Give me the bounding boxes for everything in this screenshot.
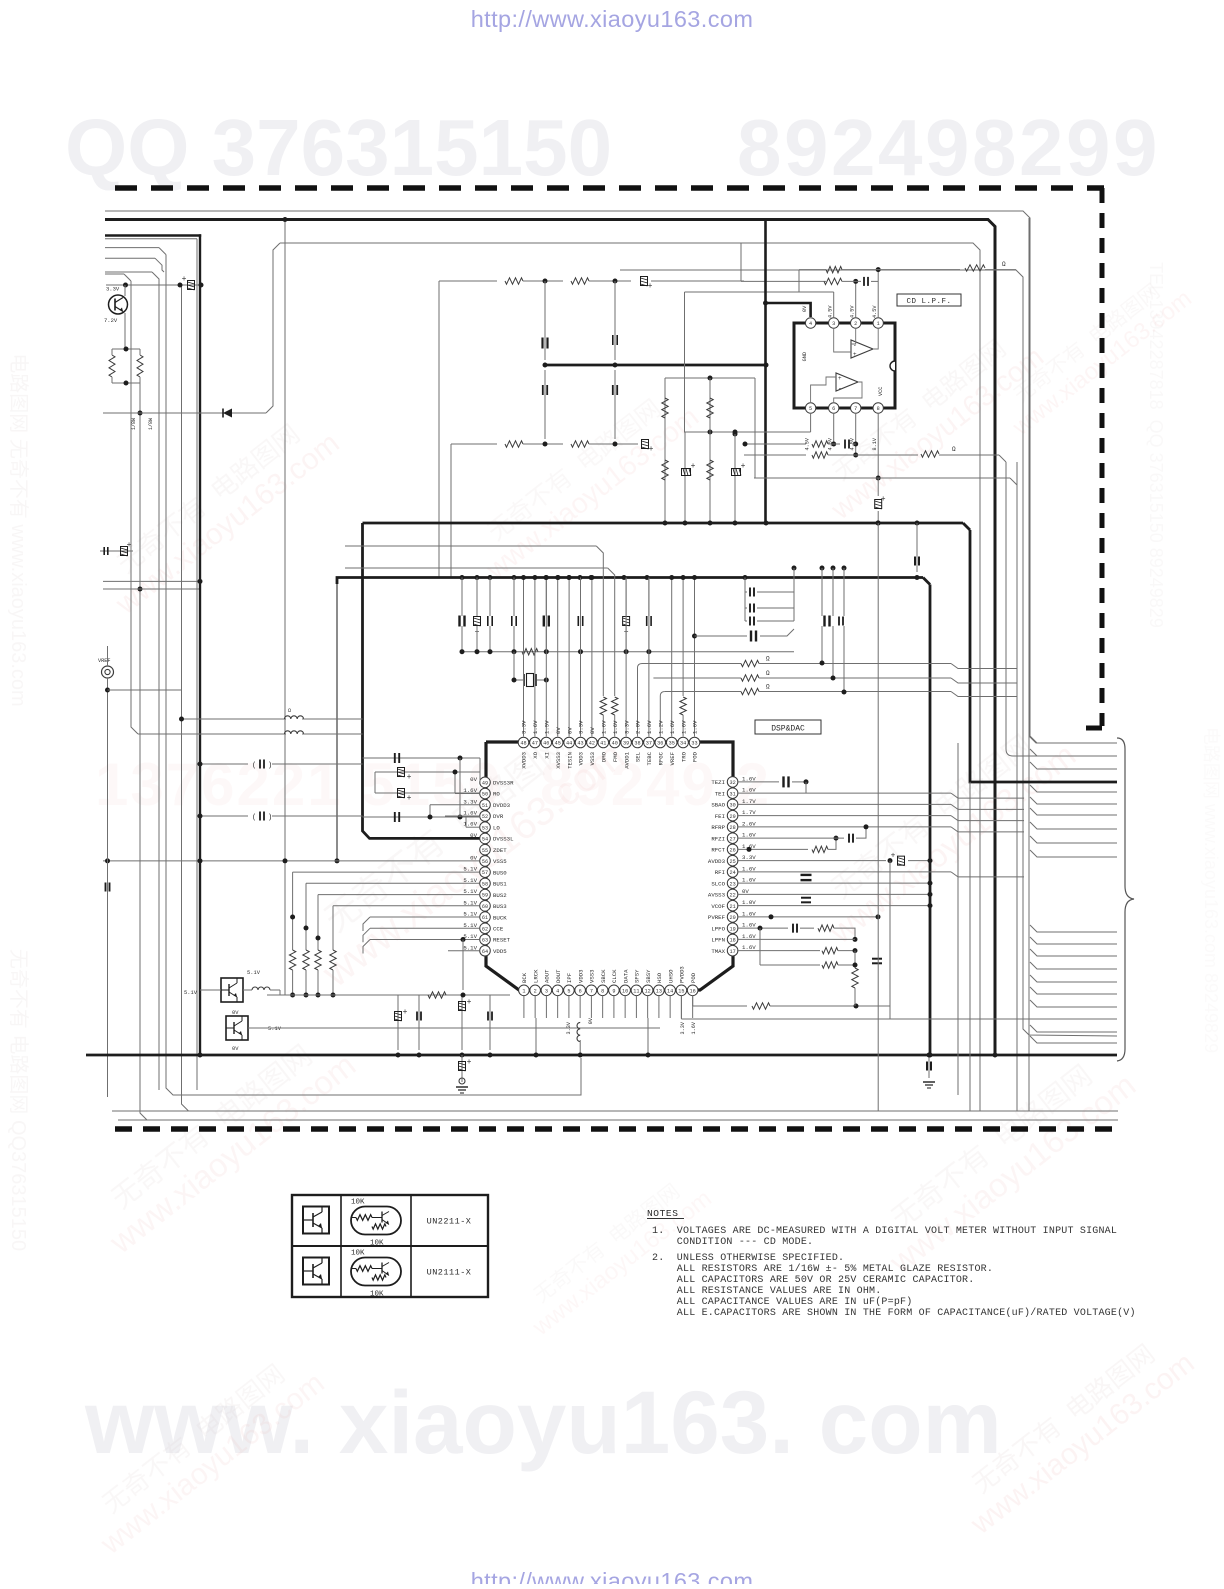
svg-text:FOD: FOD <box>692 751 699 762</box>
svg-text:1/8W: 1/8W <box>148 418 154 430</box>
svg-text:10K: 10K <box>351 1199 365 1207</box>
svg-text:1.0V: 1.0V <box>742 899 756 906</box>
svg-text:): ) <box>268 762 272 770</box>
svg-text:CONDITION --- CD MODE.: CONDITION --- CD MODE. <box>652 1237 813 1248</box>
svg-text:+: + <box>648 282 653 291</box>
svg-text:ZDET: ZDET <box>493 847 507 854</box>
svg-text:25: 25 <box>729 859 735 865</box>
svg-text:5.1V: 5.1V <box>463 933 477 940</box>
svg-text:TESIN: TESIN <box>566 752 573 769</box>
svg-text:1.6V: 1.6V <box>463 809 477 816</box>
svg-text:+: + <box>891 852 896 861</box>
svg-text:DMO: DMO <box>601 751 608 762</box>
svg-text:DVSS3R: DVSS3R <box>493 780 514 787</box>
svg-text:电路图网 www.xiaoyu163.com 8924982: 电路图网 www.xiaoyu163.com 89249829 <box>1201 727 1221 1053</box>
svg-text:RFZI: RFZI <box>711 835 725 842</box>
svg-text:12: 12 <box>645 988 651 994</box>
svg-text:21: 21 <box>729 904 735 910</box>
svg-text:2. UNLESS OTHERWISE SPECIFIED: 2. UNLESS OTHERWISE SPECIFIED. <box>652 1253 844 1264</box>
svg-text:1.6V: 1.6V <box>742 877 756 884</box>
svg-text:(: ( <box>252 814 256 822</box>
svg-text:1.6V: 1.6V <box>742 865 756 872</box>
svg-text:TEI: TEI <box>715 790 725 797</box>
svg-text:SBAO: SBAO <box>711 802 725 809</box>
svg-text:RFRP: RFRP <box>711 824 725 831</box>
svg-text:4.5V: 4.5V <box>828 305 834 318</box>
svg-text:VSS3: VSS3 <box>589 752 596 765</box>
svg-text:39: 39 <box>623 741 629 747</box>
svg-text:28: 28 <box>729 825 735 831</box>
svg-text:LPFO: LPFO <box>711 925 725 932</box>
svg-text:24: 24 <box>729 870 735 876</box>
svg-text:5.1V: 5.1V <box>463 922 477 929</box>
svg-text:23: 23 <box>729 881 735 887</box>
svg-text:0V: 0V <box>470 854 477 861</box>
svg-text:17: 17 <box>729 949 735 955</box>
svg-text:42: 42 <box>589 741 595 747</box>
svg-text:Ω: Ω <box>1002 261 1006 268</box>
svg-text:3.3V: 3.3V <box>742 854 756 861</box>
svg-text:CD L.P.F.: CD L.P.F. <box>906 298 951 306</box>
svg-text:0V: 0V <box>232 1010 239 1016</box>
svg-text:26: 26 <box>729 848 735 854</box>
svg-text:PVDD3: PVDD3 <box>679 966 686 983</box>
svg-text:LRCK: LRCK <box>532 969 539 983</box>
svg-text:VREF: VREF <box>98 658 110 664</box>
svg-text:1.6V: 1.6V <box>742 832 756 839</box>
svg-text:0V: 0V <box>589 727 596 734</box>
svg-text:31: 31 <box>729 791 735 797</box>
svg-text:5.1V: 5.1V <box>463 866 477 873</box>
svg-text:19: 19 <box>729 926 735 932</box>
svg-text:0V: 0V <box>802 305 808 312</box>
svg-text:35: 35 <box>669 741 675 747</box>
svg-text:UN2111-X: UN2111-X <box>427 1268 472 1278</box>
svg-text:FMO: FMO <box>612 751 619 762</box>
svg-text:1.6V: 1.6V <box>691 1021 697 1034</box>
svg-text:http://www.xiaoyu163.com: http://www.xiaoyu163.com <box>471 1568 754 1584</box>
svg-text:57: 57 <box>482 870 488 876</box>
svg-text:8: 8 <box>877 406 880 412</box>
svg-text:电路图网 无奇不有 www.xiaoyu163.com: 电路图网 无奇不有 www.xiaoyu163.com <box>7 353 30 706</box>
svg-text:7: 7 <box>854 406 857 412</box>
svg-text:4.5V: 4.5V <box>850 305 856 318</box>
svg-text:AVDD3: AVDD3 <box>708 858 726 865</box>
svg-text:+: + <box>741 462 746 471</box>
svg-text:1. VOLTAGES ARE DC-MEASURED W: 1. VOLTAGES ARE DC-MEASURED WITH A DIGIT… <box>652 1226 1117 1237</box>
svg-text:0V: 0V <box>588 1017 594 1024</box>
svg-text:BUS2: BUS2 <box>493 892 507 899</box>
svg-text:+: + <box>407 794 412 803</box>
svg-text:53: 53 <box>482 825 488 831</box>
svg-text:+: + <box>881 495 886 504</box>
svg-text:1.7V: 1.7V <box>742 809 756 816</box>
svg-text:32: 32 <box>729 780 735 786</box>
svg-text:14: 14 <box>667 988 673 994</box>
svg-text:): ) <box>268 814 272 822</box>
svg-text:无奇不有 电路图网 QQ376315150: 无奇不有 电路图网 QQ376315150 <box>7 949 30 1251</box>
svg-text:45: 45 <box>555 741 561 747</box>
svg-text:(: ( <box>252 762 256 770</box>
svg-text:5.1V: 5.1V <box>184 990 198 996</box>
svg-text:9: 9 <box>612 988 615 994</box>
svg-text:ALL CAPACITANCE VALUES ARE IN: ALL CAPACITANCE VALUES ARE IN uF(P=pF) <box>652 1296 912 1308</box>
svg-text:10: 10 <box>622 988 628 994</box>
svg-text:22: 22 <box>729 893 735 899</box>
svg-text:1.6V: 1.6V <box>601 720 608 734</box>
svg-text:0V: 0V <box>742 888 749 895</box>
svg-text:46: 46 <box>543 741 549 747</box>
svg-text:2.6V: 2.6V <box>742 820 756 827</box>
svg-text:IPF: IPF <box>566 973 573 983</box>
svg-text:1.6V: 1.6V <box>612 720 619 734</box>
svg-text:DVDD3: DVDD3 <box>493 802 511 809</box>
svg-text:SBCK: SBCK <box>600 969 607 983</box>
svg-text:Ω: Ω <box>766 656 770 663</box>
svg-text:37: 37 <box>646 741 652 747</box>
svg-text:DSP&DAC: DSP&DAC <box>771 725 805 734</box>
svg-text:VDD3: VDD3 <box>578 752 585 765</box>
svg-text:XI: XI <box>544 752 551 759</box>
svg-text:+: + <box>467 1058 472 1067</box>
svg-text:3.3V: 3.3V <box>623 720 630 734</box>
svg-text:+: + <box>691 462 696 471</box>
svg-text:ALL CAPACITORS ARE 50V OR 25V: ALL CAPACITORS ARE 50V OR 25V CERAMIC CA… <box>652 1275 974 1286</box>
svg-text:UHSO: UHSO <box>667 969 674 983</box>
svg-text:TEBC: TEBC <box>646 751 653 765</box>
svg-text:0V: 0V <box>555 727 562 734</box>
svg-text:3: 3 <box>832 321 835 327</box>
svg-text:DOUT: DOUT <box>555 969 562 983</box>
svg-text:48: 48 <box>520 741 526 747</box>
svg-text:56: 56 <box>482 859 488 865</box>
svg-text:2: 2 <box>534 988 537 994</box>
svg-text:1.6V: 1.6V <box>742 933 756 940</box>
svg-text:5.1V: 5.1V <box>247 970 261 976</box>
svg-text:6: 6 <box>579 988 582 994</box>
svg-text:+: + <box>182 275 187 284</box>
svg-text:64: 64 <box>482 949 488 955</box>
svg-text:3: 3 <box>545 988 548 994</box>
svg-text:16: 16 <box>690 988 696 994</box>
svg-text:DATA: DATA <box>622 969 629 983</box>
svg-text:VCOF: VCOF <box>711 903 725 910</box>
svg-text:1.6V: 1.6V <box>742 922 756 929</box>
svg-text:ALL E.CAPACITORS ARE SHOWN IN: ALL E.CAPACITORS ARE SHOWN IN THE FORM O… <box>652 1307 1136 1319</box>
svg-text:RFGC: RFGC <box>658 751 665 765</box>
svg-text:52: 52 <box>482 814 488 820</box>
svg-text:7.2V: 7.2V <box>104 317 118 324</box>
svg-text:POD: POD <box>690 972 697 983</box>
svg-text:1: 1 <box>877 321 880 327</box>
svg-text:5.1V: 5.1V <box>268 1026 282 1032</box>
svg-text:7: 7 <box>590 988 593 994</box>
svg-text:LPFN: LPFN <box>711 937 725 944</box>
svg-text:RFI: RFI <box>715 869 725 876</box>
svg-text:1.6V: 1.6V <box>692 720 699 734</box>
svg-text:VDD3: VDD3 <box>577 970 584 983</box>
svg-text:2.0V: 2.0V <box>635 720 642 734</box>
svg-text:Ω: Ω <box>288 708 291 714</box>
svg-text:5.1V: 5.1V <box>463 899 477 906</box>
svg-text:1.7V: 1.7V <box>742 798 756 805</box>
svg-text:BUS0: BUS0 <box>493 869 507 876</box>
svg-text:NOTES: NOTES <box>647 1208 679 1219</box>
svg-text:10K: 10K <box>351 1250 365 1258</box>
svg-text:1: 1 <box>522 988 525 994</box>
svg-text:3.3V: 3.3V <box>578 720 585 734</box>
svg-text:34: 34 <box>680 741 686 747</box>
svg-text:3.3V: 3.3V <box>566 1021 572 1034</box>
svg-text:5: 5 <box>567 988 570 994</box>
svg-text:1.2V: 1.2V <box>658 720 665 734</box>
svg-text:3.3V: 3.3V <box>106 286 120 293</box>
svg-text:6: 6 <box>832 406 835 412</box>
svg-text:3.3V: 3.3V <box>521 720 528 734</box>
svg-text:58: 58 <box>482 881 488 887</box>
svg-text:4.5V: 4.5V <box>872 305 878 318</box>
svg-text:8.1V: 8.1V <box>872 437 878 450</box>
svg-text:51: 51 <box>482 803 488 809</box>
svg-text:LO: LO <box>493 824 500 831</box>
svg-text:1.6V: 1.6V <box>463 821 477 828</box>
svg-text:+: + <box>127 541 132 550</box>
svg-text:HSO: HSO <box>656 972 663 983</box>
svg-text:CLCK: CLCK <box>611 969 618 983</box>
svg-text:43: 43 <box>577 741 583 747</box>
svg-text:BUS3: BUS3 <box>493 903 507 910</box>
svg-text:AOUT: AOUT <box>544 969 551 983</box>
svg-text:10K: 10K <box>370 1291 384 1299</box>
svg-text:XO: XO <box>532 751 539 758</box>
svg-text:Ω: Ω <box>766 684 770 691</box>
svg-text:Ω: Ω <box>952 446 956 453</box>
svg-text:59: 59 <box>482 893 488 899</box>
svg-text:3.3V: 3.3V <box>463 798 477 805</box>
svg-text:RO: RO <box>493 791 500 798</box>
svg-text:55: 55 <box>482 848 488 854</box>
svg-text:UN2211-X: UN2211-X <box>427 1217 472 1227</box>
svg-text:36: 36 <box>657 741 663 747</box>
svg-text:38: 38 <box>634 741 640 747</box>
svg-text:62: 62 <box>482 926 488 932</box>
svg-text:8: 8 <box>601 988 604 994</box>
svg-text:ALL RESISTANCE VALUES ARE IN O: ALL RESISTANCE VALUES ARE IN OHM. <box>652 1286 881 1297</box>
svg-text:AVSS3: AVSS3 <box>708 892 726 899</box>
svg-text:http://www.xiaoyu163.com: http://www.xiaoyu163.com <box>471 6 754 32</box>
svg-text:TRO: TRO <box>680 751 687 762</box>
svg-text:PVREF: PVREF <box>708 914 726 921</box>
svg-text:VSS3: VSS3 <box>589 970 596 983</box>
svg-text:+: + <box>467 998 472 1007</box>
svg-text:60: 60 <box>482 904 488 910</box>
svg-text:47: 47 <box>532 741 538 747</box>
svg-text:ALL RESISTORS ARE 1/16W ±- 5%: ALL RESISTORS ARE 1/16W ±- 5% METAL GLAZ… <box>652 1263 993 1275</box>
svg-text:RESET: RESET <box>493 937 511 944</box>
svg-text:GND: GND <box>802 352 808 361</box>
svg-text:SEL: SEL <box>635 752 642 762</box>
svg-text:13: 13 <box>656 988 662 994</box>
svg-text:1.6V: 1.6V <box>742 787 756 794</box>
svg-text:61: 61 <box>482 915 488 921</box>
svg-text:+: + <box>649 445 654 454</box>
svg-text:63: 63 <box>482 938 488 944</box>
svg-text:DVR: DVR <box>493 813 504 820</box>
svg-text:20: 20 <box>729 915 735 921</box>
svg-text:VSS5: VSS5 <box>493 858 507 865</box>
svg-text:TEZI: TEZI <box>711 779 725 786</box>
svg-text:FEI: FEI <box>715 813 725 820</box>
svg-text:44: 44 <box>566 741 572 747</box>
svg-text:5: 5 <box>809 406 812 412</box>
svg-text:1.6V: 1.6V <box>646 720 653 734</box>
svg-text:15: 15 <box>678 988 684 994</box>
svg-text:Ω: Ω <box>766 670 770 677</box>
svg-text:BCK: BCK <box>521 972 528 983</box>
svg-text:+: + <box>838 375 842 382</box>
svg-text:29: 29 <box>729 814 735 820</box>
svg-text:AVDD1: AVDD1 <box>623 751 630 768</box>
svg-text:30: 30 <box>729 803 735 809</box>
svg-text:+: + <box>853 351 857 358</box>
svg-text:RFCT: RFCT <box>711 847 725 854</box>
svg-text:1.6V: 1.6V <box>669 720 676 734</box>
svg-text:BUS1: BUS1 <box>493 881 507 888</box>
svg-text:4: 4 <box>556 988 559 994</box>
svg-text:50: 50 <box>482 792 488 798</box>
svg-text:1.6V: 1.6V <box>680 720 687 734</box>
svg-text:4: 4 <box>809 321 812 327</box>
svg-text:1.6V: 1.6V <box>532 720 539 734</box>
svg-text:33: 33 <box>691 741 697 747</box>
svg-text:DVSS3L: DVSS3L <box>493 836 514 843</box>
svg-text:VREF: VREF <box>669 752 676 765</box>
svg-text:49: 49 <box>482 780 488 786</box>
svg-text:27: 27 <box>729 836 735 842</box>
svg-text:3.3V: 3.3V <box>680 1021 686 1034</box>
svg-text:5.1V: 5.1V <box>463 944 477 951</box>
svg-text:1.6V: 1.6V <box>742 944 756 951</box>
svg-text:VDD5: VDD5 <box>493 948 507 955</box>
svg-text:2: 2 <box>854 321 857 327</box>
svg-text:CCE: CCE <box>493 925 504 932</box>
svg-text:1.5V: 1.5V <box>544 720 551 734</box>
svg-text:TMAX: TMAX <box>711 948 725 955</box>
svg-text:TEL 13942287818 QQ 376315150: TEL 13942287818 QQ 376315150 89249829 <box>1146 262 1166 628</box>
svg-text:0V: 0V <box>470 776 477 783</box>
svg-text:XVDD3: XVDD3 <box>521 752 528 769</box>
svg-text:XVSS3: XVSS3 <box>555 752 562 769</box>
svg-text:VCC: VCC <box>878 387 884 396</box>
svg-text:892498299: 892498299 <box>737 103 1160 192</box>
svg-text:+: + <box>407 773 412 782</box>
svg-text:SBSY: SBSY <box>645 969 652 983</box>
svg-text:SLCO: SLCO <box>711 880 725 887</box>
svg-text:+: + <box>403 1008 408 1017</box>
svg-text:0V: 0V <box>566 727 573 734</box>
svg-text:41: 41 <box>600 741 606 747</box>
svg-text:1/8W: 1/8W <box>131 418 137 430</box>
svg-text:54: 54 <box>482 837 488 843</box>
svg-text:40: 40 <box>612 741 618 747</box>
svg-text:10K: 10K <box>370 1240 384 1248</box>
svg-text:1.6V: 1.6V <box>742 775 756 782</box>
svg-text:18: 18 <box>729 938 735 944</box>
svg-text:BUCK: BUCK <box>493 914 507 921</box>
svg-text:SFSY: SFSY <box>634 969 641 983</box>
svg-text:0V: 0V <box>470 832 477 839</box>
svg-text:-: - <box>838 385 842 392</box>
svg-text:5.1V: 5.1V <box>463 888 477 895</box>
svg-text:0V: 0V <box>232 1046 239 1052</box>
svg-text:QQ 376315150: QQ 376315150 <box>65 103 612 192</box>
svg-text:1.6V: 1.6V <box>742 910 756 917</box>
svg-text:11: 11 <box>633 988 639 994</box>
